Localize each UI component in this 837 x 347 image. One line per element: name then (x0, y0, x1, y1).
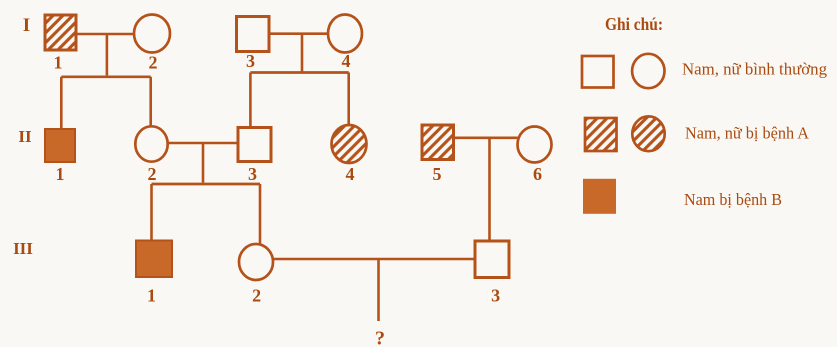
svg-text:I: I (23, 15, 30, 36)
svg-text:2: 2 (148, 164, 157, 184)
svg-text:II: II (18, 127, 32, 146)
wire: sibling bar under II-2/II-3 (152, 183, 261, 186)
svg-text:Ghi chú:: Ghi chú: (605, 14, 663, 34)
svg-text:III: III (13, 239, 33, 258)
individual II-5: hatched square (male, disease A) (422, 125, 454, 160)
svg-text:3: 3 (246, 51, 255, 71)
individual III-3: square (male, normal) (475, 241, 509, 278)
svg-text:1: 1 (56, 164, 65, 184)
wire: couple line II-2 to II-3 (168, 142, 239, 145)
legend filled square (disease B male) (584, 179, 616, 213)
wire: sibling bar under I-3/I-4 (250, 71, 348, 74)
wire: couple line II-5 to II-6 (454, 137, 518, 140)
wire: drop to II-2 (149, 77, 152, 126)
legend circle (normal female) (632, 54, 664, 88)
svg-text:Nam, nữ bình thường: Nam, nữ bình thường (682, 60, 827, 79)
individual III-2: circle (female, normal) (239, 244, 273, 280)
wire: descent drop from couple III-2/III-3 to unknown child (377, 259, 380, 321)
wire: drop to III-1 (150, 184, 153, 242)
svg-text:?: ? (375, 328, 385, 347)
svg-text:1: 1 (54, 53, 63, 73)
svg-text:5: 5 (433, 164, 442, 184)
wire: descent drop from couple I-3/I-4 (301, 34, 304, 73)
svg-text:1: 1 (147, 286, 156, 306)
individual I-2: circle (female, normal) (134, 15, 170, 53)
individual III-1: filled square (male, disease B) (136, 241, 172, 278)
svg-text:4: 4 (346, 164, 355, 184)
individual I-3: square (male, normal) (237, 17, 270, 52)
wire: sibling bar under I-1/I-2 (61, 75, 150, 78)
legend hatched square (disease A male) (585, 118, 617, 151)
legend square (normal male) (582, 56, 614, 88)
individual II-6: circle (female, normal) (518, 127, 552, 163)
wire: drop to II-4 (347, 73, 350, 127)
svg-text:3: 3 (491, 286, 500, 306)
wire: couple line I-3 to I-4 (269, 32, 329, 35)
wire: drop to II-1 (60, 77, 63, 130)
individual I-1: hatched square (male, disease A) (45, 15, 76, 50)
wire: descent drop from couple II-5/II-6 to III-3 (488, 138, 491, 242)
wire: descent drop from couple I-1/I-2 (106, 34, 109, 75)
svg-text:2: 2 (252, 286, 261, 306)
individual I-4: circle (female, normal) (328, 15, 362, 53)
wire: couple line III-2 to III-3 (273, 258, 475, 261)
wire: couple line I-1 to I-2 (76, 33, 134, 36)
svg-text:Nam, nữ bị bệnh A: Nam, nữ bị bệnh A (685, 124, 810, 143)
legend hatched circle (disease A female) (632, 116, 664, 151)
individual II-2: circle (female, normal) (135, 126, 167, 161)
svg-text:6: 6 (533, 164, 542, 184)
svg-text:Nam bị bệnh B: Nam bị bệnh B (684, 190, 782, 209)
svg-text:4: 4 (342, 51, 351, 71)
wire: drop to II-3 (249, 73, 252, 128)
svg-text:2: 2 (149, 53, 158, 73)
individual II-3: square (male, normal) (238, 128, 271, 162)
individual II-4: hatched circle (female, disease A) (332, 125, 367, 163)
svg-text:3: 3 (248, 164, 257, 184)
wire: descent drop from couple II-2/II-3 (202, 143, 205, 183)
individual II-1: filled square (male, disease B) (45, 129, 75, 162)
wire: drop to III-2 (259, 184, 262, 245)
